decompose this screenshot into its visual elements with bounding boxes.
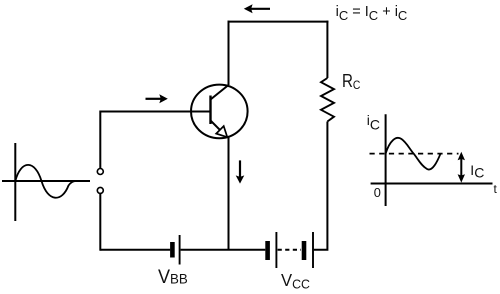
wire: top horizontal bbox=[228, 21, 329, 23]
arrow: collector current (pointing left) bbox=[244, 4, 270, 13]
battery VCC thin plate (left cell +) bbox=[275, 232, 277, 268]
arrow: emitter current (pointing down) bbox=[236, 160, 245, 183]
battery VCC dashed link between cells bbox=[278, 249, 301, 251]
arrow: IC amplitude double-headed bbox=[458, 152, 465, 183]
input signal source vertical axis bbox=[14, 143, 16, 221]
transistor Q1 emitter stroke with open arrowhead bbox=[211, 121, 228, 138]
wire: bottom rail left segment bbox=[100, 249, 170, 251]
battery VCC thick plate (left cell -) bbox=[265, 241, 270, 260]
node: bottom input terminal bbox=[97, 187, 103, 193]
input signal source horizontal axis bbox=[2, 180, 90, 182]
label RC bbox=[342, 71, 360, 92]
battery VBB thick plate (-) bbox=[170, 242, 175, 258]
label VBB bbox=[158, 267, 188, 289]
output graph dashed DC level line bbox=[370, 153, 459, 155]
wire: collector up bbox=[228, 21, 230, 85]
arrow: base current into transistor bbox=[146, 94, 168, 103]
label iC (graph y-axis) bbox=[367, 112, 380, 128]
node: top input terminal bbox=[97, 169, 103, 175]
battery VCC thin plate (right cell +) bbox=[312, 232, 314, 268]
wire: input top vertical to base corner bbox=[100, 112, 209, 169]
label iC = IC + iC bbox=[336, 4, 408, 20]
wire: bottom terminal down to bottom rail bbox=[99, 194, 101, 251]
wire: resistor down to VCC corner bbox=[314, 122, 328, 250]
input signal sine wave bbox=[15, 165, 75, 198]
output graph sine wave bbox=[386, 138, 441, 170]
label 0 (graph origin) bbox=[374, 185, 381, 200]
wire: emitter down to bottom rail bbox=[228, 137, 230, 250]
output graph y-axis bbox=[385, 114, 387, 206]
wire: right vertical down to resistor bbox=[326, 21, 328, 78]
label t (graph x-axis) bbox=[494, 182, 497, 196]
label IC (amplitude) bbox=[470, 162, 484, 178]
label VCC bbox=[281, 270, 310, 291]
transistor Q1 base bar bbox=[209, 96, 211, 125]
wire: bottom rail between VBB and VCC bbox=[181, 249, 266, 251]
transistor Q1 circle bbox=[191, 85, 248, 139]
battery VBB thin plate (+) bbox=[179, 235, 181, 265]
resistor RC zigzag bbox=[321, 78, 334, 122]
battery VCC thick plate (right cell -) bbox=[302, 241, 307, 260]
output graph x-axis bbox=[371, 183, 493, 185]
transistor Q1 collector stroke bbox=[211, 85, 229, 100]
